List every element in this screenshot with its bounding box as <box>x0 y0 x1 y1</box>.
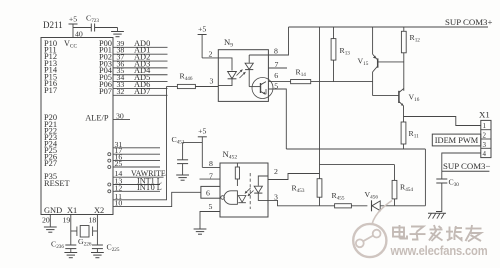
svg-text:GND: GND <box>44 206 62 215</box>
svg-text:+5: +5 <box>198 25 206 34</box>
N9 pin 8 wire to rail <box>249 54 268 56</box>
svg-text:+5: +5 <box>69 15 77 24</box>
optocoupler N9 <box>218 50 268 102</box>
capacitor C451 <box>183 142 203 144</box>
watermark logo circle <box>353 201 392 258</box>
N452 internal resistor <box>236 163 238 167</box>
wire to X1 pin1 <box>404 117 481 126</box>
N9 internal photodiode <box>248 55 250 63</box>
capacitor C723 <box>90 24 92 32</box>
resistor R455 <box>318 205 335 207</box>
svg-text:6: 6 <box>206 189 210 198</box>
svg-text:5: 5 <box>209 202 213 211</box>
svg-text:+5: +5 <box>198 127 206 136</box>
ground (C236) <box>70 249 72 253</box>
svg-text:X1: X1 <box>67 206 77 215</box>
svg-text:4: 4 <box>482 150 486 158</box>
chassis ground <box>428 212 446 214</box>
capacitor C30 <box>441 171 443 179</box>
V15 base wire to R12 <box>378 61 404 63</box>
svg-text:18: 18 <box>89 216 97 225</box>
svg-text:30: 30 <box>116 111 124 120</box>
svg-text:6: 6 <box>274 71 278 80</box>
svg-text:D211: D211 <box>43 20 63 30</box>
svg-text:X2: X2 <box>94 206 104 215</box>
svg-text:www.elecfans.com: www.elecfans.com <box>390 243 488 258</box>
wire C30 to chassis ground <box>436 183 442 212</box>
svg-text:32: 32 <box>117 87 125 96</box>
svg-text:SUP COM3−: SUP COM3− <box>443 161 490 171</box>
N452 internal LED <box>258 176 268 186</box>
vertical wire from rail through R14 node <box>319 27 321 179</box>
N452 pin 6 input box <box>201 186 220 198</box>
wire R446 to N9 pin3 <box>195 86 218 88</box>
long feedback wire (N9 pin5 node) <box>286 148 425 150</box>
svg-text:P27: P27 <box>44 159 57 168</box>
ground (C451) <box>182 164 184 175</box>
resistor R11 <box>401 122 406 144</box>
resistor R14 <box>268 81 290 83</box>
ground (top) <box>111 31 124 33</box>
wire X1 pin4 to SUP COM3- <box>442 153 481 171</box>
resistor R454 <box>394 165 396 181</box>
svg-text:P17: P17 <box>44 86 57 95</box>
ground (pin 20) <box>44 226 57 228</box>
ground (C225) <box>96 249 98 253</box>
svg-text:2: 2 <box>274 167 278 176</box>
svg-text:P07: P07 <box>99 87 112 96</box>
resistor R453 <box>317 179 322 198</box>
svg-text:8: 8 <box>209 159 213 168</box>
N9 internal LED <box>218 58 232 71</box>
wire bottom net to IDEM PWM drop <box>395 205 426 207</box>
svg-text:SUP COM3+: SUP COM3+ <box>445 17 492 27</box>
svg-text:2: 2 <box>209 50 213 59</box>
N452 internal detector diode <box>238 196 246 203</box>
svg-text:8: 8 <box>274 47 278 56</box>
IDEM PWM box <box>432 134 481 146</box>
svg-text:RESET: RESET <box>44 179 70 188</box>
N9 internal phototransistor <box>252 78 273 99</box>
wire +5 to N9 pin2 <box>201 35 203 58</box>
wire to R454 top <box>320 164 395 166</box>
watermark text (stylized) <box>393 225 407 239</box>
svg-text:AD7: AD7 <box>134 87 150 96</box>
optocoupler N452 <box>220 163 268 217</box>
svg-text:1: 1 <box>482 122 486 130</box>
svg-text:20: 20 <box>42 216 50 225</box>
wire C723 to ground <box>95 27 118 29</box>
svg-text:IDEM PWM: IDEM PWM <box>435 136 479 145</box>
svg-text:X1: X1 <box>479 110 490 120</box>
capacitor C236 <box>65 244 76 246</box>
svg-text:ALE/P: ALE/P <box>85 114 109 123</box>
crystal G226 <box>71 230 77 232</box>
resistor R13 <box>333 27 335 39</box>
svg-text:3: 3 <box>210 77 214 86</box>
svg-text:19: 19 <box>63 216 71 225</box>
svg-text:INT0 L: INT0 L <box>137 183 162 192</box>
ground (N452 pin5) <box>194 228 207 230</box>
capacitor C225 <box>92 244 103 246</box>
svg-text:3: 3 <box>482 141 486 149</box>
wire +5 to N452 pin8 <box>201 137 203 168</box>
N9 light arrows <box>237 70 243 76</box>
resistor R446 <box>167 86 178 88</box>
V16 emitter node wire <box>403 106 405 122</box>
resistor R12 <box>403 27 405 31</box>
N452 light arrows <box>245 188 251 194</box>
N452 dashed separator <box>249 173 251 209</box>
N452 internal gate <box>224 191 237 205</box>
svg-text:2: 2 <box>482 132 486 140</box>
microcontroller U1 D211 <box>41 38 113 215</box>
svg-text:40: 40 <box>75 30 83 39</box>
wire pin40 <box>72 24 74 38</box>
